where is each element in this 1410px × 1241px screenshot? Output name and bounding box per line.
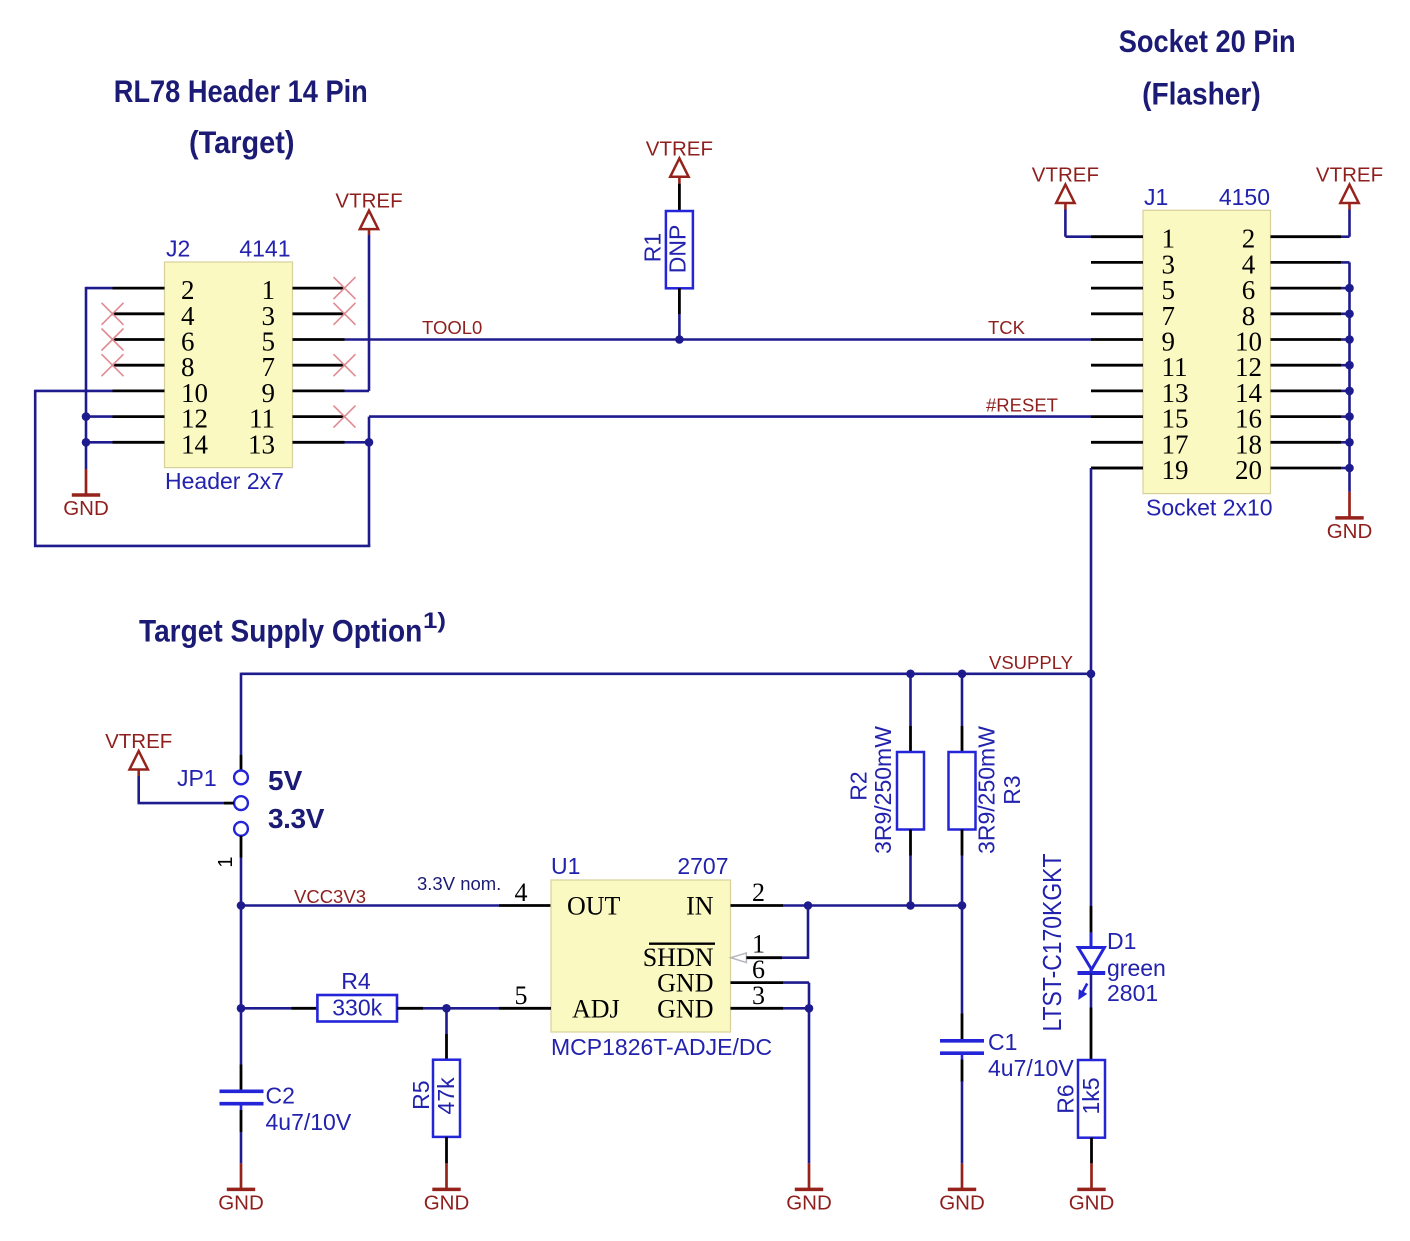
node bus junction pin 12 xyxy=(1345,361,1354,370)
J2 pin 9 stub xyxy=(293,389,345,392)
wire pin1 up to IN xyxy=(782,906,808,959)
resistor R6 body xyxy=(1078,1060,1105,1138)
node VSUPPLY/R2 xyxy=(906,670,915,679)
svg-text:3R9/250mW: 3R9/250mW xyxy=(870,726,896,854)
ground GND at C1 xyxy=(939,1163,985,1214)
svg-text:1: 1 xyxy=(752,929,765,958)
J1 pin 9 number xyxy=(1162,327,1176,357)
J1 pin 14 number xyxy=(1235,378,1263,408)
U1 pin 5 stub xyxy=(499,1007,551,1010)
label 2707 xyxy=(677,853,728,879)
wire VTREF to JP1 xyxy=(138,776,225,803)
value 3R9/250mW (R2) xyxy=(870,726,896,854)
U1 pin name OUT xyxy=(567,892,621,921)
svg-text:R5: R5 xyxy=(408,1080,434,1109)
wire loop left vertical xyxy=(34,390,37,547)
svg-text:GND: GND xyxy=(424,1192,470,1215)
svg-text:4u7/10V: 4u7/10V xyxy=(266,1109,352,1135)
wire J2 pin13 link xyxy=(345,441,370,444)
wire loop right vertical xyxy=(368,417,371,547)
resistor R3 body xyxy=(949,752,976,830)
wire VTREF down xyxy=(1064,203,1067,237)
wire rail down to JP1 xyxy=(240,673,243,755)
value 4u7/10V (C2) xyxy=(266,1109,352,1135)
U1 pin 3 stub xyxy=(731,1007,784,1010)
J2 pin 4 stub xyxy=(113,312,165,315)
J1 pin 4 stub xyxy=(1271,261,1342,264)
svg-text:LTST-C170KGKT: LTST-C170KGKT xyxy=(1037,853,1067,1031)
label JP1 xyxy=(177,765,217,791)
J1 pin 2 number xyxy=(1242,224,1256,254)
svg-text:6: 6 xyxy=(752,955,765,984)
svg-text:3R9/250mW: 3R9/250mW xyxy=(974,726,1000,854)
node VSUPPLY/D1 xyxy=(1087,670,1096,679)
wire VTREF stem xyxy=(368,229,371,235)
wire J1 pin19 link xyxy=(1091,467,1143,470)
J2 pin 11 stub xyxy=(293,415,345,418)
wire VSUPPLY rail xyxy=(241,672,1091,675)
wire VCC3V3 xyxy=(241,904,499,907)
wire IN net down to C1 xyxy=(961,906,964,1014)
label C2 xyxy=(266,1083,295,1109)
IC U1 body xyxy=(551,880,731,1032)
node J2 pin13 junction xyxy=(365,438,374,447)
power VTREF at J1 pin1 xyxy=(1032,164,1099,204)
capacitor C2 plates xyxy=(220,1091,264,1103)
svg-text:GND: GND xyxy=(657,969,713,998)
J2 pin 3 number xyxy=(262,301,276,331)
wire J1 pin 16 to bus xyxy=(1341,415,1350,418)
wire GND bus vertical xyxy=(1348,262,1351,492)
svg-text:Target Supply Option: Target Supply Option xyxy=(139,612,422,648)
value 1k5 xyxy=(1078,1077,1104,1114)
J2 pin 12 stub xyxy=(113,415,165,418)
svg-text:3.3V nom.: 3.3V nom. xyxy=(417,873,501,894)
label #RESET xyxy=(986,395,1058,416)
U1 pin name GND (6) xyxy=(657,969,713,998)
J2 pin 1 stub xyxy=(293,287,345,290)
title: Socket 20 Pin xyxy=(1119,23,1296,59)
wire pin3 link xyxy=(783,1007,809,1010)
svg-text:RL78 Header 14 Pin: RL78 Header 14 Pin xyxy=(114,73,368,109)
J1 pin 16 stub xyxy=(1271,415,1342,418)
U1 pin 4 number xyxy=(515,878,528,907)
no-connect X on J2 pin 8 xyxy=(102,354,124,376)
no-connect X on J2 pin 4 xyxy=(102,303,124,325)
label 4150 xyxy=(1219,184,1270,210)
label TOOL0 xyxy=(422,317,482,338)
node R2/IN junction xyxy=(906,901,915,910)
J2 pin 6 stub xyxy=(113,338,165,341)
wire pin6 down xyxy=(783,983,809,1009)
J1 pin 11 number xyxy=(1162,352,1188,382)
connector J1 body xyxy=(1143,210,1271,493)
svg-text:C1: C1 xyxy=(988,1029,1017,1055)
svg-text:JP1: JP1 xyxy=(177,765,217,791)
svg-text:2707: 2707 xyxy=(677,853,728,879)
svg-text:4150: 4150 xyxy=(1219,184,1270,210)
R1 bottom wire xyxy=(678,314,681,340)
J1 pin 11 stub xyxy=(1091,364,1143,367)
svg-text:GND: GND xyxy=(1069,1192,1115,1215)
J2 pin 2 stub xyxy=(113,287,165,290)
U1 pin name ADJ xyxy=(572,994,620,1023)
wire R4 to node xyxy=(423,1007,447,1010)
C2 bottom lead xyxy=(240,1104,243,1132)
node bus junction pin 18 xyxy=(1345,438,1354,447)
ground GND at J2 xyxy=(63,469,109,520)
label MCP1826T-ADJE/DC xyxy=(551,1034,772,1060)
resistor R2 body xyxy=(897,752,924,830)
J1 pin 18 number xyxy=(1235,429,1262,459)
U1 pin 6 stub xyxy=(731,981,784,984)
svg-text:13: 13 xyxy=(248,429,275,459)
J2 pin 6 number xyxy=(181,327,195,357)
R1 bottom lead xyxy=(678,288,681,314)
no-connect X on J2 pin 7 xyxy=(334,354,356,376)
value 3R9/250mW (R3) xyxy=(974,726,1000,854)
J2 pin 1 number xyxy=(262,275,276,305)
J1 pin 17 number xyxy=(1162,429,1189,459)
power VTREF at JP1 xyxy=(105,730,172,770)
J1 pin 19 stub xyxy=(1091,467,1143,470)
U1 pin name IN xyxy=(686,892,714,921)
J1 pin 20 stub xyxy=(1271,467,1342,470)
label 3.3V nom. xyxy=(417,873,501,894)
svg-text:TOOL0: TOOL0 xyxy=(422,317,482,338)
J1 pin 1 number xyxy=(1162,224,1176,254)
label C1 xyxy=(988,1029,1017,1055)
label R6 xyxy=(1053,1084,1079,1113)
wire R3 to IN net xyxy=(961,856,964,906)
R1 top lead xyxy=(678,184,681,211)
U1 pin name SHDN xyxy=(643,943,714,972)
U1 pin 6 number xyxy=(752,955,765,984)
J1 pin 9 stub xyxy=(1091,338,1143,341)
J2 pin 7 stub xyxy=(293,364,345,367)
C1 bottom lead xyxy=(961,1053,964,1082)
J2 pin 13 number xyxy=(248,429,275,459)
label TCK xyxy=(988,317,1026,338)
JP1 pin top stub xyxy=(240,755,243,771)
title: (Flasher) xyxy=(1142,76,1261,112)
J2 pin 10 number xyxy=(181,378,208,408)
J1 pin 17 stub xyxy=(1091,441,1143,444)
svg-text:(Flasher): (Flasher) xyxy=(1142,76,1261,112)
wire GND rail vertical xyxy=(85,287,88,469)
svg-text:OUT: OUT xyxy=(567,892,621,921)
svg-text:3.3V: 3.3V xyxy=(268,803,325,834)
svg-text:C2: C2 xyxy=(266,1083,295,1109)
svg-text:1k5: 1k5 xyxy=(1078,1077,1104,1114)
J1 pin 7 stub xyxy=(1091,312,1143,315)
R6 top lead xyxy=(1090,1008,1093,1061)
node bus junction pin 14 xyxy=(1345,387,1354,396)
R2 top lead xyxy=(909,726,912,752)
title: (Target) xyxy=(189,124,295,160)
power VTREF at R1 xyxy=(646,137,713,177)
node VCC3V3 junction xyxy=(237,901,246,910)
J2 pin 9 number xyxy=(262,378,276,408)
J2 pin 7 number xyxy=(262,352,276,382)
svg-text:R3: R3 xyxy=(999,775,1025,804)
node ADJ divider junction xyxy=(237,1004,246,1013)
label VCC3V3 xyxy=(294,886,366,907)
capacitor C1 plates xyxy=(940,1041,984,1053)
power VTREF at J1 pin2 xyxy=(1316,164,1383,204)
svg-text:Socket 20 Pin: Socket 20 Pin xyxy=(1119,23,1296,59)
node R1/TOOL0 junction xyxy=(675,335,684,344)
wire R2 to IN net xyxy=(909,856,912,906)
svg-text:GND: GND xyxy=(657,994,713,1023)
wire VTREF down right xyxy=(1348,203,1351,237)
wire J1 pin 12 to bus xyxy=(1341,364,1350,367)
wire J1 pin 10 to bus xyxy=(1341,338,1350,341)
wire pin19 down xyxy=(1090,468,1093,906)
wire J1 pin 8 to bus xyxy=(1341,312,1350,315)
svg-text:MCP1826T-ADJE/DC: MCP1826T-ADJE/DC xyxy=(551,1034,772,1060)
label green xyxy=(1107,955,1166,981)
J1 pin 12 number xyxy=(1235,352,1262,382)
svg-text:GND: GND xyxy=(786,1192,832,1215)
wire J2 pin14 link xyxy=(86,441,113,444)
wire VTREF down to pin9 xyxy=(368,235,371,391)
J1 pin 2 stub xyxy=(1271,235,1342,238)
U1 SHDN overline xyxy=(649,943,715,945)
wire C2 to GND xyxy=(240,1132,243,1163)
value LTST-C170KGKT xyxy=(1037,853,1067,1031)
U1 pin 3 number xyxy=(752,981,765,1010)
J1 pin 6 stub xyxy=(1271,287,1342,290)
svg-text:3: 3 xyxy=(752,981,765,1010)
wire J1 pin 18 to bus xyxy=(1341,441,1350,444)
wire to R4 xyxy=(241,1007,292,1010)
node bus junction pin 6 xyxy=(1345,284,1354,293)
LED D1 symbol xyxy=(1078,933,1106,973)
node bus junction pin 10 xyxy=(1345,335,1354,344)
label R5 xyxy=(408,1080,434,1109)
D1 top lead xyxy=(1090,906,1093,933)
J1 pin 10 number xyxy=(1235,327,1262,357)
J1 pin 8 stub xyxy=(1271,312,1342,315)
wire J1 pin 14 to bus xyxy=(1341,390,1350,393)
svg-text:5: 5 xyxy=(515,981,528,1010)
R3 bottom lead xyxy=(961,830,964,856)
J1 pin 5 number xyxy=(1162,275,1176,305)
svg-text:GND: GND xyxy=(218,1192,264,1215)
J1 pin 16 number xyxy=(1235,404,1262,434)
wire D1 to R6 xyxy=(1090,973,1093,1008)
J1 pin 19 number xyxy=(1162,455,1189,485)
label R1 xyxy=(640,233,666,262)
svg-text:R4: R4 xyxy=(341,968,371,994)
svg-text:green: green xyxy=(1107,955,1166,981)
node bus junction pin 16 xyxy=(1345,412,1354,421)
wire rail to R3 xyxy=(961,674,964,726)
label Socket 2x10 xyxy=(1146,495,1273,521)
J2 pin 4 number xyxy=(181,301,195,331)
J1 pin 13 stub xyxy=(1091,389,1143,392)
R6 bottom lead xyxy=(1090,1138,1093,1164)
wire C1 to GND xyxy=(961,1081,964,1163)
node J2 pin12 junction xyxy=(82,412,91,421)
ground GND at J1 bus xyxy=(1327,492,1373,543)
resistor R5 body xyxy=(433,1060,460,1137)
svg-text:4141: 4141 xyxy=(239,236,290,262)
ground GND at R5 xyxy=(424,1163,470,1214)
J1 pin 12 stub xyxy=(1271,364,1342,367)
svg-text:R2: R2 xyxy=(846,771,872,800)
resistor R4 body xyxy=(317,995,397,1022)
svg-text:TCK: TCK xyxy=(988,317,1026,338)
J1 pin 15 number xyxy=(1162,404,1189,434)
JP1 pin 1 number xyxy=(215,856,237,867)
title: RL78 Header 14 Pin xyxy=(114,73,368,109)
svg-text:2: 2 xyxy=(752,878,765,907)
node IN/pin1 junction xyxy=(804,901,813,910)
svg-text:#RESET: #RESET xyxy=(986,395,1058,416)
resistor R1 body xyxy=(666,211,693,288)
JP1 bottom stub xyxy=(240,836,243,858)
U1 pin 2 stub xyxy=(731,904,784,907)
wire J1 pin 4 to bus xyxy=(1341,261,1350,264)
node pin3/pin6 junction xyxy=(805,1004,814,1013)
R4 right lead xyxy=(397,1007,423,1010)
wire loop bottom xyxy=(34,545,370,548)
U1 pin 5 number xyxy=(515,981,528,1010)
J2 pin 12 number xyxy=(181,404,208,434)
R5 top lead xyxy=(445,1034,448,1060)
C1 top lead xyxy=(961,1014,964,1040)
svg-text:J1: J1 xyxy=(1144,184,1168,210)
wire J1 pin 20 to bus xyxy=(1341,467,1350,470)
svg-text:5V: 5V xyxy=(268,765,303,796)
svg-text:14: 14 xyxy=(181,429,209,459)
label VSUPPLY xyxy=(989,652,1073,673)
label 3.3V xyxy=(268,803,325,834)
ground GND at R6 xyxy=(1069,1163,1115,1214)
value 47k xyxy=(433,1077,459,1115)
svg-text:19: 19 xyxy=(1162,455,1189,485)
wire J2 pin2 to GND rail xyxy=(86,287,113,290)
svg-text:VSUPPLY: VSUPPLY xyxy=(989,652,1073,673)
J2 pin 11 number xyxy=(249,404,275,434)
svg-text:R1: R1 xyxy=(640,233,666,262)
J1 pin 6 number xyxy=(1242,275,1256,305)
no-connect X on J2 pin 11 xyxy=(334,406,356,428)
svg-text:2801: 2801 xyxy=(1107,980,1158,1006)
ground GND at C2 xyxy=(218,1163,264,1214)
svg-text:330k: 330k xyxy=(332,995,382,1021)
node R3/IN junction xyxy=(958,901,967,910)
U1 pin 1 inverter triangle xyxy=(731,953,747,963)
wire down to C2 xyxy=(240,1008,243,1064)
label J2 xyxy=(166,236,190,262)
svg-text:20: 20 xyxy=(1235,455,1262,485)
J1 pin 5 stub xyxy=(1091,287,1143,290)
svg-text:IN: IN xyxy=(686,892,714,921)
svg-text:4: 4 xyxy=(515,878,528,907)
J2 pin 8 number xyxy=(181,352,195,382)
label Header 2x7 xyxy=(165,468,284,494)
U1 pin 1 number xyxy=(752,929,765,958)
wire TOOL0/TCK net xyxy=(345,338,1092,341)
wire node down to R5 xyxy=(445,1008,448,1034)
LED D1 light arrow xyxy=(1079,984,1087,1000)
jumper JP1 pad bottom xyxy=(234,822,248,836)
no-connect X on J2 pin 1 xyxy=(334,277,356,299)
jumper JP1 pad middle xyxy=(234,796,248,810)
svg-text:1): 1) xyxy=(423,608,446,633)
label U1 xyxy=(551,853,580,879)
power VTREF at J2 pin9 xyxy=(335,190,402,230)
node bus junction pin 20 xyxy=(1345,464,1354,473)
wire rail to R2 xyxy=(909,674,912,726)
U1 pin 4 stub xyxy=(499,904,551,907)
J1 pin 4 number xyxy=(1242,249,1256,279)
label 4141 xyxy=(239,236,290,262)
J1 pin 3 stub xyxy=(1091,261,1143,264)
U1 pin name GND (3) xyxy=(657,994,713,1023)
U1 pin 1 stub xyxy=(746,956,782,959)
wire J2 pin12 link xyxy=(86,415,113,418)
jumper JP1 pad top xyxy=(234,771,248,785)
R1 top stem xyxy=(678,177,681,184)
title: Target Supply Option 1) xyxy=(139,608,446,648)
svg-text:D1: D1 xyxy=(1107,928,1136,954)
J2 pin 3 stub xyxy=(293,312,345,315)
svg-text:(Target): (Target) xyxy=(189,124,295,160)
value DNP xyxy=(665,225,691,274)
label 5V xyxy=(268,765,303,796)
node bus junction pin 8 xyxy=(1345,310,1354,319)
wire J1 pin 6 to bus xyxy=(1341,287,1350,290)
wire to J1 pin2 xyxy=(1341,235,1350,238)
wire pin2 to IN net xyxy=(783,904,962,907)
svg-text:GND: GND xyxy=(63,497,109,520)
R3 top lead xyxy=(961,726,964,752)
svg-text:GND: GND xyxy=(1327,520,1373,543)
no-connect X on J2 pin 3 xyxy=(334,303,356,325)
J2 pin 5 number xyxy=(262,327,276,357)
label 2801 xyxy=(1107,980,1158,1006)
wire #RESET net xyxy=(369,415,1091,418)
wire JP1 node down xyxy=(240,906,243,1009)
wire JP1 to VCC3V3 xyxy=(240,858,243,906)
J1 pin 3 number xyxy=(1162,249,1176,279)
R5 bottom lead xyxy=(445,1137,448,1164)
wire to J1 pin1 xyxy=(1065,235,1091,238)
svg-text:DNP: DNP xyxy=(665,225,691,274)
svg-text:1: 1 xyxy=(215,856,237,867)
svg-text:U1: U1 xyxy=(551,853,580,879)
label D1 xyxy=(1107,928,1136,954)
J2 pin 10 stub xyxy=(113,389,165,392)
node J2 pin14 junction xyxy=(82,438,91,447)
svg-text:Socket 2x10: Socket 2x10 xyxy=(1146,495,1273,521)
J2 pin 14 stub xyxy=(113,441,165,444)
node VSUPPLY/R3 xyxy=(958,670,967,679)
wire pin9 link xyxy=(345,390,370,393)
J1 pin 15 stub xyxy=(1091,415,1143,418)
svg-text:J2: J2 xyxy=(166,236,190,262)
no-connect X on J2 pin 6 xyxy=(102,329,124,351)
label J1 xyxy=(1144,184,1168,210)
J2 pin 13 stub xyxy=(293,441,345,444)
ground GND at U1 xyxy=(786,1163,832,1214)
R4 left lead xyxy=(292,1007,318,1010)
J2 pin 8 stub xyxy=(113,364,165,367)
